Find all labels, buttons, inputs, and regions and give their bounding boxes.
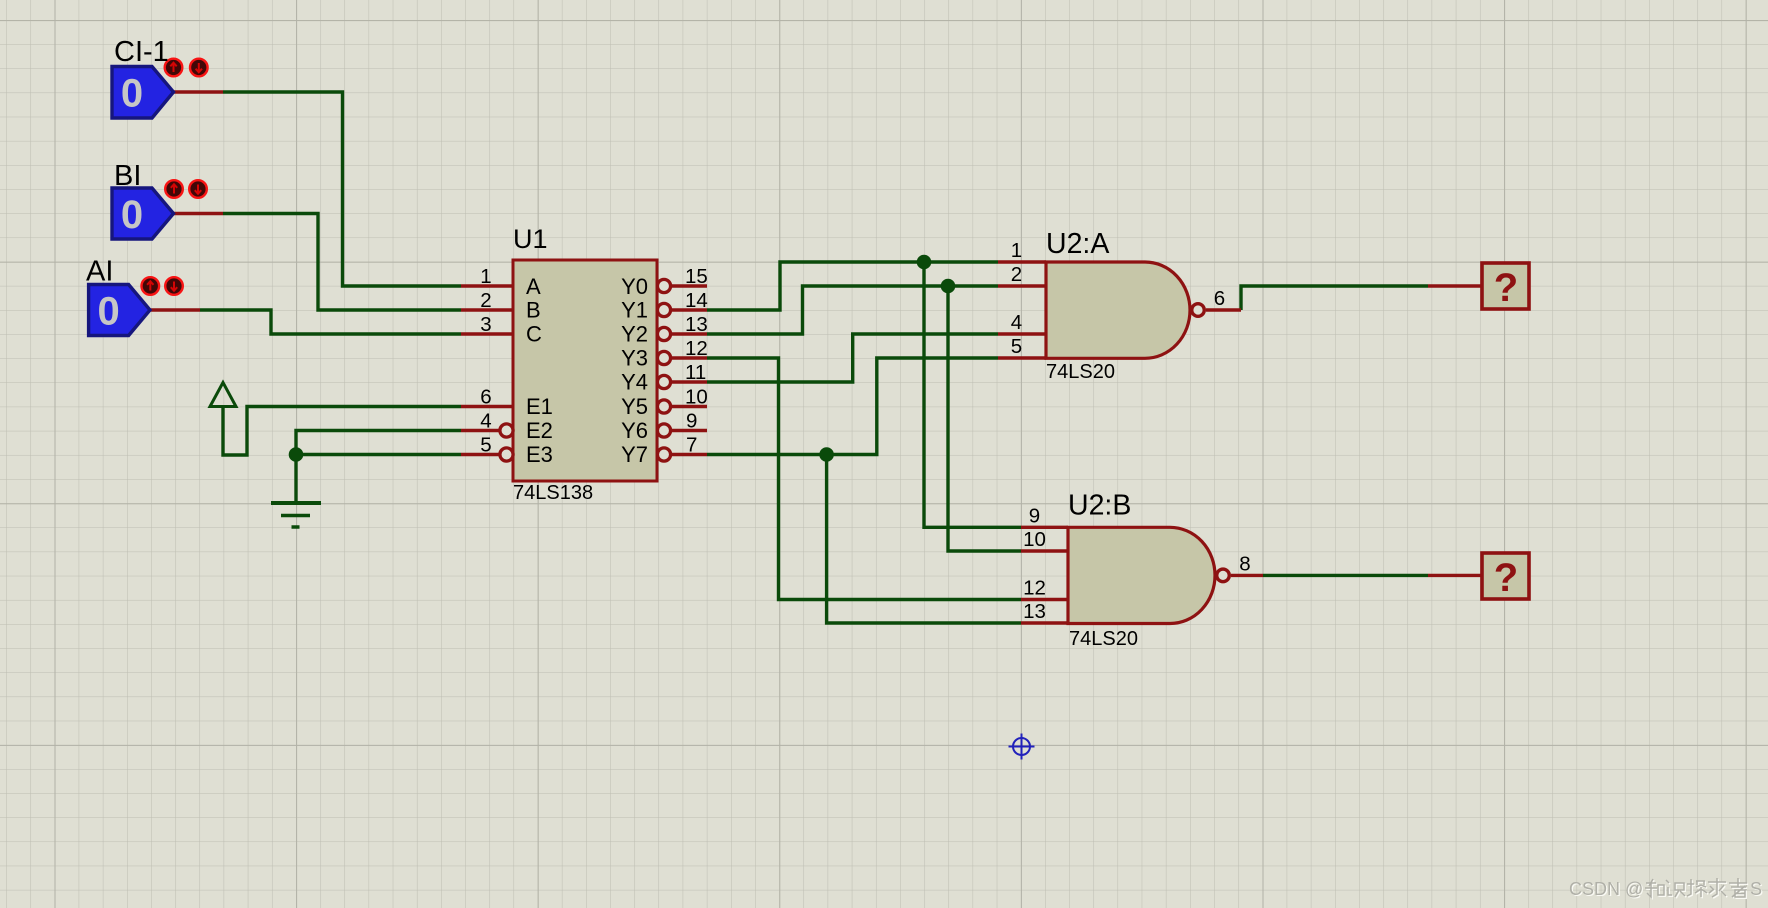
svg-text:4: 4 <box>480 410 491 433</box>
svg-text:5: 5 <box>480 434 491 457</box>
svg-text:15: 15 <box>685 265 708 288</box>
svg-text:Y1: Y1 <box>621 298 648 323</box>
svg-text:4: 4 <box>1011 311 1022 334</box>
svg-text:Y3: Y3 <box>621 346 648 371</box>
svg-text:E2: E2 <box>526 418 553 443</box>
svg-text:Y7: Y7 <box>621 442 648 467</box>
svg-text:14: 14 <box>685 289 708 312</box>
svg-text:C: C <box>526 322 542 347</box>
svg-text:U1: U1 <box>513 224 548 254</box>
svg-text:2: 2 <box>1011 263 1022 286</box>
svg-text:CI-1: CI-1 <box>114 36 169 68</box>
svg-text:6: 6 <box>480 386 491 409</box>
svg-text:13: 13 <box>685 313 708 336</box>
svg-text:?: ? <box>1494 556 1518 600</box>
svg-text:7: 7 <box>686 434 697 457</box>
svg-text:1: 1 <box>480 265 491 288</box>
svg-text:U2:B: U2:B <box>1068 490 1131 522</box>
svg-text:10: 10 <box>685 386 708 409</box>
svg-text:U2:A: U2:A <box>1046 228 1109 260</box>
svg-text:Y0: Y0 <box>621 274 648 299</box>
svg-text:12: 12 <box>685 337 708 360</box>
svg-text:0: 0 <box>121 193 143 237</box>
svg-text:Y5: Y5 <box>621 394 648 419</box>
svg-text:AI: AI <box>86 256 113 288</box>
svg-text:1: 1 <box>1011 239 1022 262</box>
svg-text:3: 3 <box>480 313 491 336</box>
svg-text:13: 13 <box>1023 600 1046 623</box>
svg-text:10: 10 <box>1023 528 1046 551</box>
svg-text:?: ? <box>1494 266 1518 310</box>
svg-text:9: 9 <box>1029 504 1040 527</box>
svg-text:E3: E3 <box>526 442 553 467</box>
svg-text:BI: BI <box>114 160 141 192</box>
svg-text:Y6: Y6 <box>621 418 648 443</box>
svg-text:12: 12 <box>1023 577 1046 600</box>
svg-text:74LS20: 74LS20 <box>1069 628 1138 650</box>
svg-text:5: 5 <box>1011 335 1022 358</box>
svg-text:74LS20: 74LS20 <box>1046 361 1115 383</box>
svg-text:6: 6 <box>1214 287 1225 310</box>
svg-text:A: A <box>526 274 541 299</box>
svg-text:0: 0 <box>121 72 143 116</box>
svg-text:B: B <box>526 298 541 323</box>
svg-text:9: 9 <box>686 410 697 433</box>
svg-text:Y4: Y4 <box>621 370 648 395</box>
svg-text:74LS138: 74LS138 <box>513 482 593 504</box>
svg-text:Y2: Y2 <box>621 322 648 347</box>
svg-text:E1: E1 <box>526 394 553 419</box>
svg-text:8: 8 <box>1239 552 1250 575</box>
svg-text:2: 2 <box>480 289 491 312</box>
svg-text:0: 0 <box>97 290 119 334</box>
svg-text:11: 11 <box>685 361 706 384</box>
